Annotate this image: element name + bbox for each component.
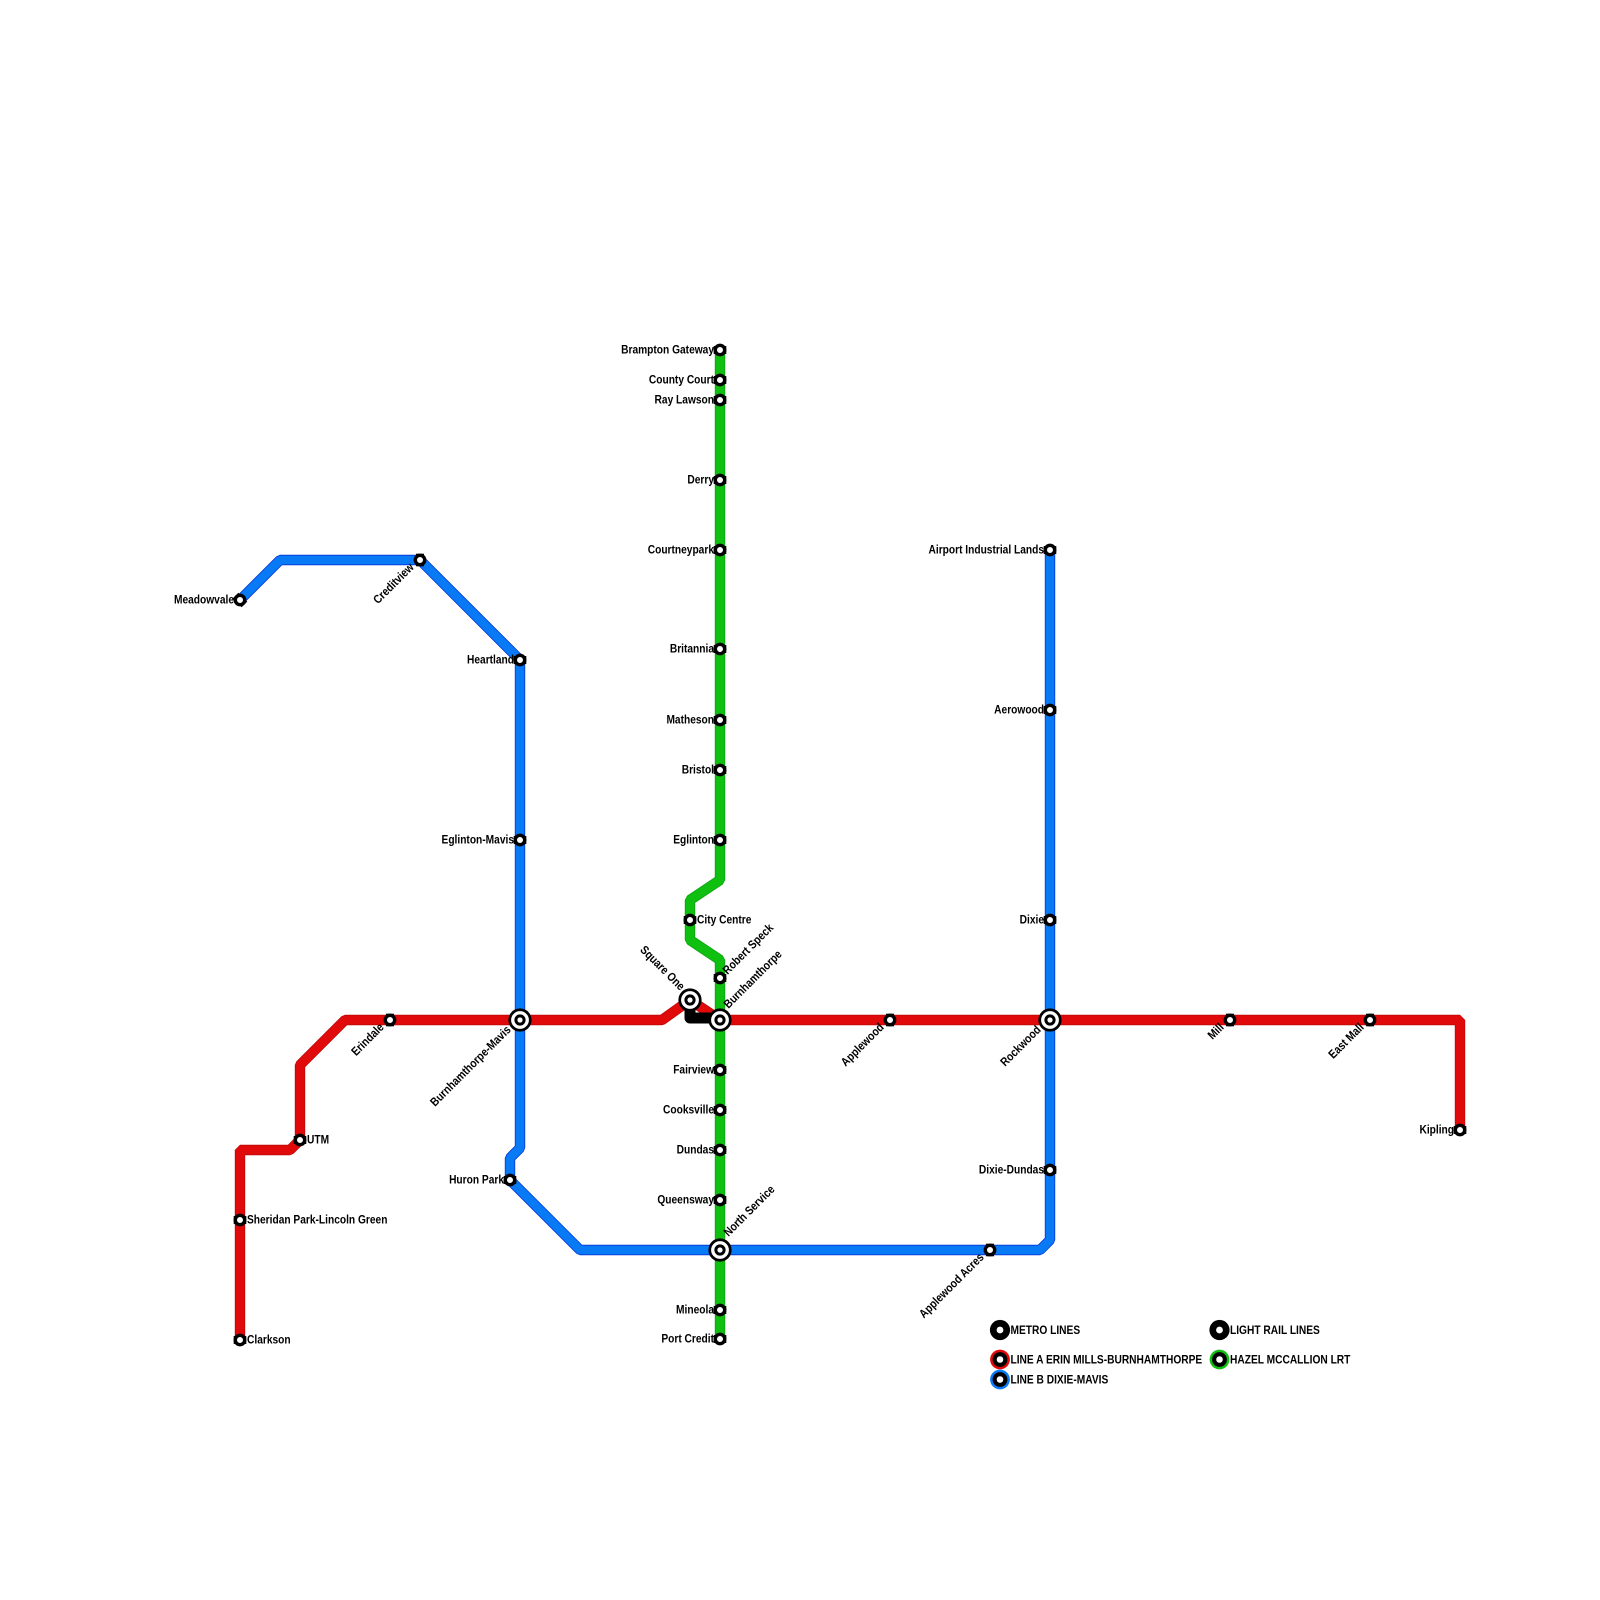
svg-text:Dixie: Dixie bbox=[1020, 914, 1044, 927]
svg-text:Airport Industrial Lands: Airport Industrial Lands bbox=[929, 544, 1044, 557]
station Clarkson bbox=[234, 1336, 247, 1344]
station Courtneypark bbox=[714, 546, 727, 554]
Hazel McCallion LRT (green) core bbox=[690, 350, 720, 1339]
svg-text:County Court: County Court bbox=[649, 374, 714, 387]
station Applewood Acres bbox=[986, 1244, 994, 1257]
station Robert Speck bbox=[714, 974, 727, 982]
svg-text:Eglinton-Mavis: Eglinton-Mavis bbox=[442, 834, 514, 847]
station Derry bbox=[714, 476, 727, 484]
legend LINE B bbox=[990, 1370, 1010, 1390]
svg-text:Sheridan Park-Lincoln Green: Sheridan Park-Lincoln Green bbox=[247, 1214, 388, 1227]
svg-text:Fairview: Fairview bbox=[673, 1064, 714, 1077]
Hazel McCallion LRT (green) edge bbox=[690, 350, 720, 1339]
interchange Rockwood bbox=[1040, 1010, 1061, 1031]
station Cooksville bbox=[714, 1106, 727, 1114]
station Port Credit bbox=[714, 1335, 727, 1343]
legend METRO LINES bbox=[990, 1320, 1010, 1340]
svg-text:City Centre: City Centre bbox=[697, 914, 751, 927]
svg-text:Britannia: Britannia bbox=[670, 643, 715, 656]
svg-text:Brampton Gateway: Brampton Gateway bbox=[621, 344, 715, 357]
station Dundas bbox=[714, 1146, 727, 1154]
svg-text:LINE B DIXIE-MAVIS: LINE B DIXIE-MAVIS bbox=[1011, 1374, 1109, 1387]
station Applewood bbox=[886, 1014, 894, 1027]
station Eglinton bbox=[714, 836, 727, 844]
interchange Square One bbox=[680, 990, 701, 1011]
station Huron Park bbox=[504, 1176, 517, 1184]
svg-text:Dundas: Dundas bbox=[677, 1144, 714, 1157]
legend LINE A bbox=[990, 1350, 1010, 1370]
station Creditview bbox=[416, 554, 424, 567]
Line B Dixie-Mavis (blue) edge bbox=[240, 550, 1050, 1250]
interchange North Service bbox=[710, 1240, 731, 1261]
Line B Dixie-Mavis (blue) core bbox=[240, 550, 1050, 1250]
svg-text:LIGHT RAIL LINES: LIGHT RAIL LINES bbox=[1230, 1324, 1320, 1337]
Line A Erin Mills-Burnhamthorpe (red) core bbox=[240, 1000, 1460, 1340]
station City Centre bbox=[684, 916, 697, 924]
station Queensway bbox=[714, 1196, 727, 1204]
station Matheson bbox=[714, 716, 727, 724]
station Aerowood bbox=[1044, 706, 1057, 714]
legend HAZEL MCCALLION LRT bbox=[1210, 1350, 1230, 1370]
svg-text:Heartland: Heartland bbox=[467, 654, 514, 667]
station Dixie bbox=[1044, 916, 1057, 924]
station Airport Industrial Lands bbox=[1044, 546, 1057, 554]
svg-text:UTM: UTM bbox=[307, 1134, 329, 1147]
station Mineola bbox=[714, 1306, 727, 1314]
svg-text:HAZEL MCCALLION LRT: HAZEL MCCALLION LRT bbox=[1230, 1354, 1351, 1367]
svg-text:Aerowood: Aerowood bbox=[994, 704, 1044, 717]
svg-text:Derry: Derry bbox=[687, 474, 714, 487]
station Meadowvale bbox=[236, 596, 245, 605]
svg-text:Cooksville: Cooksville bbox=[663, 1104, 714, 1117]
svg-text:METRO LINES: METRO LINES bbox=[1011, 1324, 1081, 1337]
station Brampton Gateway bbox=[714, 346, 727, 354]
station East Mall bbox=[1366, 1014, 1374, 1027]
svg-text:Mineola: Mineola bbox=[676, 1304, 715, 1317]
svg-text:Port Credit: Port Credit bbox=[661, 1333, 714, 1346]
station Eglinton-Mavis bbox=[514, 836, 527, 844]
svg-text:Meadowvale: Meadowvale bbox=[174, 594, 234, 607]
svg-text:Eglinton: Eglinton bbox=[673, 834, 714, 847]
station Britannia bbox=[714, 645, 727, 653]
station UTM bbox=[294, 1136, 307, 1144]
station Erindale bbox=[386, 1014, 394, 1027]
Line A Erin Mills-Burnhamthorpe (red) edge bbox=[240, 1000, 1460, 1340]
transfer connector Square One-Burnhamthorpe bbox=[690, 1000, 720, 1018]
svg-text:Dixie-Dundas: Dixie-Dundas bbox=[979, 1164, 1044, 1177]
station County Court bbox=[714, 376, 727, 384]
svg-text:Matheson: Matheson bbox=[666, 714, 714, 727]
svg-text:Courtneypark: Courtneypark bbox=[648, 544, 715, 557]
station Ray Lawson bbox=[714, 396, 727, 404]
svg-text:Queensway: Queensway bbox=[657, 1194, 714, 1207]
station Dixie-Dundas bbox=[1044, 1166, 1057, 1174]
svg-text:Bristol: Bristol bbox=[682, 764, 714, 777]
svg-text:Clarkson: Clarkson bbox=[247, 1334, 291, 1347]
station Mill bbox=[1226, 1014, 1234, 1027]
interchange Burnhamthorpe bbox=[710, 1010, 731, 1031]
station Fairview bbox=[714, 1066, 727, 1074]
station Sheridan Park-Lincoln Green bbox=[234, 1216, 247, 1224]
station Kipling bbox=[1454, 1126, 1467, 1134]
station Heartland bbox=[514, 656, 527, 664]
interchange Burnhamthorpe-Mavis bbox=[510, 1010, 531, 1031]
station Bristol bbox=[714, 766, 727, 774]
svg-text:LINE A ERIN MILLS-BURNHAMTHORP: LINE A ERIN MILLS-BURNHAMTHORPE bbox=[1011, 1354, 1203, 1367]
svg-text:Huron Park: Huron Park bbox=[449, 1174, 505, 1187]
svg-text:Ray Lawson: Ray Lawson bbox=[655, 394, 715, 407]
svg-text:Kipling: Kipling bbox=[1419, 1124, 1454, 1137]
legend LIGHT RAIL LINES bbox=[1209, 1320, 1229, 1340]
